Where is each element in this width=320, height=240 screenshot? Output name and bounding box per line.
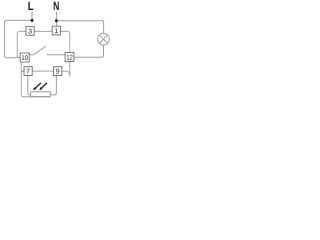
terminal 1: [52, 26, 60, 35]
wire: [31, 12, 33, 21]
svg-text:N: N: [53, 0, 59, 13]
wire: [55, 12, 57, 27]
switch fixed contact line: [47, 54, 65, 56]
wire: [5, 20, 32, 57]
photocell unit top edge: [21, 71, 70, 76]
switch contact (relay): [29, 54, 33, 56]
twilight switch unit U1 (top box): [17, 31, 70, 57]
photocell unit (lower box) left+bottom outline: [21, 62, 50, 97]
svg-text:10: 10: [21, 55, 28, 62]
svg-text:9: 9: [56, 69, 60, 76]
light arrow 1: [33, 83, 41, 91]
terminal 10: [20, 53, 29, 62]
junction dot N: [55, 19, 58, 22]
svg-text:7: 7: [26, 69, 30, 76]
terminal 7: [24, 67, 32, 76]
svg-text:12: 12: [66, 55, 73, 62]
svg-text:L: L: [28, 0, 34, 13]
terminal 3: [26, 27, 34, 36]
terminal 12: [65, 53, 74, 62]
junction dot L: [31, 19, 34, 22]
svg-text:1: 1: [54, 28, 58, 35]
wire terminal 7 to photoresistor: [28, 76, 31, 95]
wire from terminal 12 down to photocell unit: [69, 62, 71, 77]
photoresistor element: [31, 92, 51, 97]
light arrow 2: [39, 83, 47, 91]
wire: [56, 21, 103, 34]
wire terminal 9 to photoresistor: [50, 76, 56, 95]
terminal 9: [54, 67, 62, 76]
wire: [74, 45, 104, 57]
switch lever: [33, 46, 45, 55]
svg-text:3: 3: [28, 29, 32, 36]
lamp E1: [98, 33, 110, 45]
